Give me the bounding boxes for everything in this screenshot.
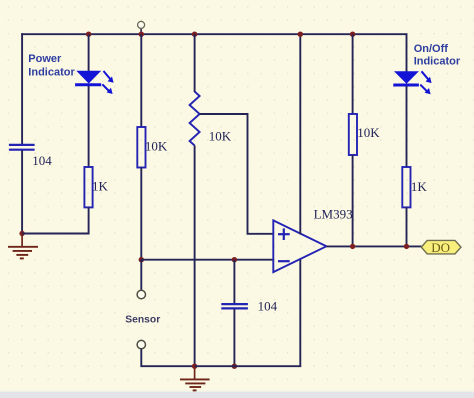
wire R3 to output node xyxy=(352,155,354,246)
node junction rail x=141.5 xyxy=(139,32,144,37)
wire op-amp output xyxy=(326,245,421,247)
wire op-amp power pin from rail xyxy=(299,34,301,234)
node bottom rail junction at pot xyxy=(192,364,197,369)
node junction rail x=88.5 xyxy=(86,32,91,37)
node junction rail x=300 xyxy=(298,32,303,37)
capacitor C1 104 xyxy=(9,145,35,150)
wire RP1 wiper to op-amp plus input xyxy=(200,114,274,234)
resistor R3 10K xyxy=(349,114,357,155)
wire potentiometer bottom to bottom rail xyxy=(194,146,196,368)
svg-text:DO: DO xyxy=(431,240,450,255)
wire C2 top xyxy=(233,260,235,304)
wire left column x=22 xyxy=(21,33,23,144)
wire rail to R3 xyxy=(352,34,354,114)
node junction rail x=194.6 xyxy=(192,32,197,37)
svg-text:1K: 1K xyxy=(92,179,109,194)
wire rail to LED1 xyxy=(88,34,90,72)
capacitor C2 104 xyxy=(221,304,248,308)
svg-text:LM393: LM393 xyxy=(314,206,353,221)
wire rail to potentiometer xyxy=(194,34,196,92)
svg-text:Power: Power xyxy=(28,53,62,65)
wire from GND node to R2 bottom xyxy=(22,233,89,235)
terminal sensor pin2 xyxy=(137,340,145,348)
resistor R1 10K xyxy=(137,127,145,168)
port DO connector xyxy=(421,240,461,255)
svg-text:104: 104 xyxy=(32,153,52,168)
wire below C1 xyxy=(21,151,23,235)
resistor R2 1K xyxy=(84,167,92,207)
node bottom rail junction at C2 xyxy=(232,364,237,369)
node GND junction left xyxy=(19,231,24,236)
wire LED2 to R4 xyxy=(406,86,408,167)
ground GND1 xyxy=(8,234,38,259)
svg-text:10K: 10K xyxy=(357,125,380,140)
svg-text:1K: 1K xyxy=(411,179,428,194)
LED D2 xyxy=(393,71,431,94)
terminal VCC circle xyxy=(138,21,145,34)
svg-text:Sensor: Sensor xyxy=(125,315,160,326)
potentiometer RP1 10K zigzag xyxy=(190,92,200,146)
svg-text:10K: 10K xyxy=(209,129,232,144)
wire VCC top rail xyxy=(21,33,406,35)
resistor R4 1K xyxy=(402,167,410,207)
wire C2 bottom to bottom rail xyxy=(233,309,235,366)
node inverting input junction xyxy=(139,257,144,262)
svg-text:On/Off: On/Off xyxy=(414,43,449,55)
terminal sensor pin1 xyxy=(137,290,145,298)
svg-text:Indicator: Indicator xyxy=(28,67,75,79)
wire node to sensor pin1 xyxy=(140,260,142,291)
LED D1 xyxy=(75,71,114,94)
ground GND2 xyxy=(180,366,210,390)
wire rail to R1 xyxy=(140,34,142,127)
wire inverting line to op-amp xyxy=(141,259,273,261)
svg-text:Indicator: Indicator xyxy=(414,56,461,68)
svg-text:10K: 10K xyxy=(145,139,168,154)
svg-text:104: 104 xyxy=(258,298,278,313)
node junction rail x=352.5 xyxy=(350,32,355,37)
node junction inverting line at C2 xyxy=(232,257,237,262)
op-amp U1 LM393 xyxy=(273,220,326,272)
wire R4 to output node xyxy=(406,207,408,246)
bottom edge band xyxy=(0,391,474,393)
node output junction at R4 xyxy=(404,244,409,249)
wire sensor pin2 to bottom rail xyxy=(141,349,195,366)
wire R1 to inverting node xyxy=(140,168,142,261)
wire bottom rail xyxy=(195,260,300,367)
wire rail corner to LED2 xyxy=(406,33,408,72)
node output junction at R3 xyxy=(350,244,355,249)
wire R2 to GND node xyxy=(88,207,90,234)
wire LED1 to R2 xyxy=(88,86,90,167)
